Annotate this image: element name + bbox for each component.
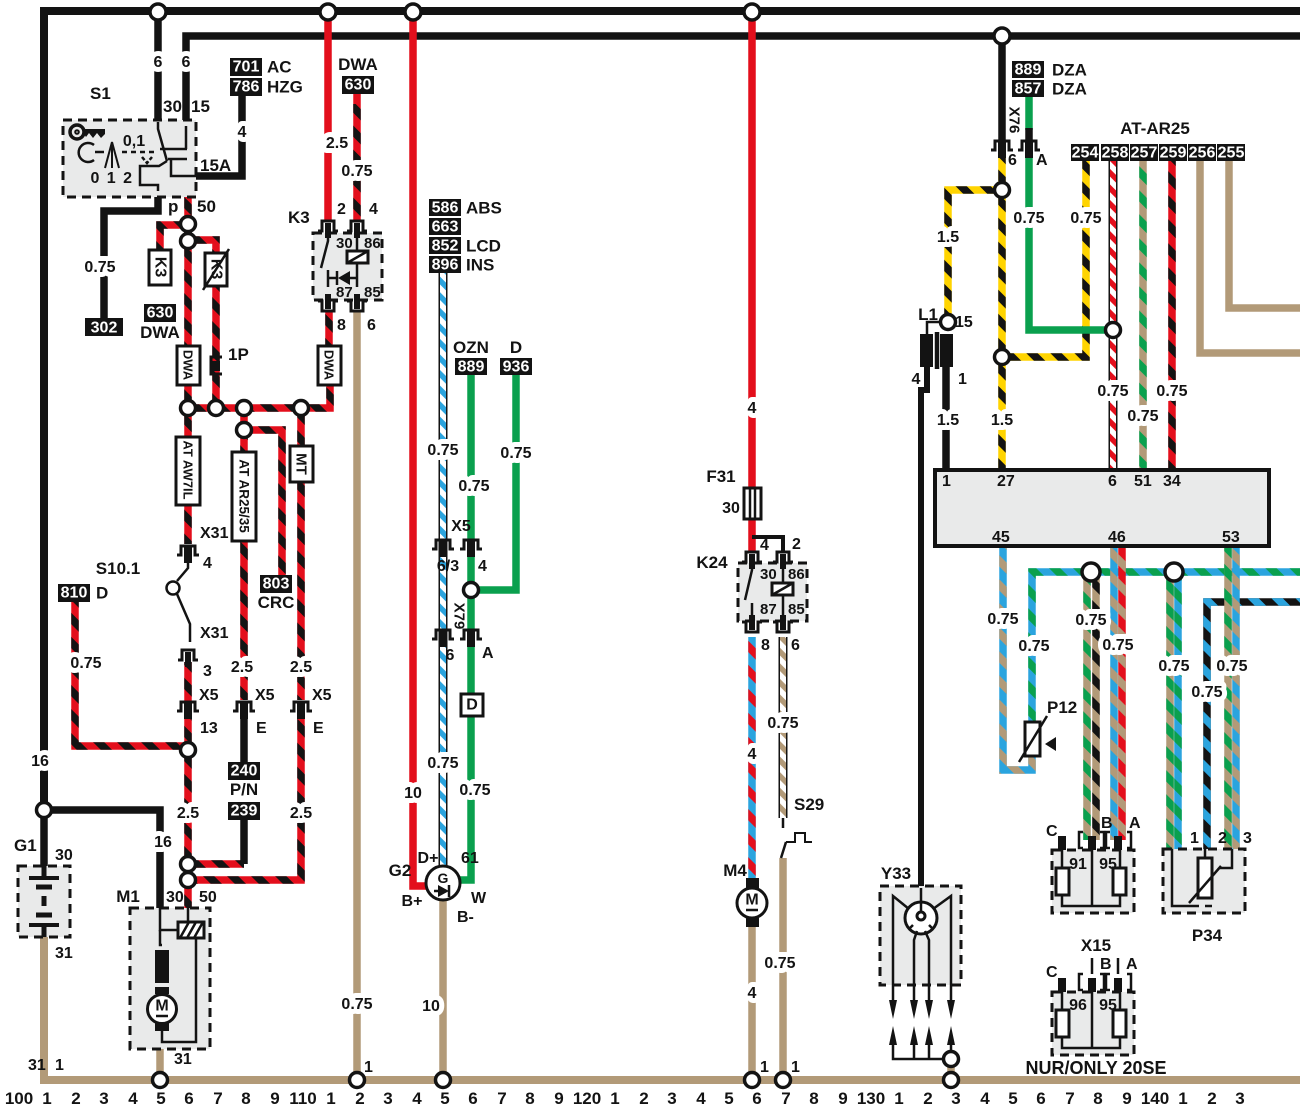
svg-text:X5: X5 [255, 687, 275, 704]
svg-text:0.75: 0.75 [1102, 637, 1133, 654]
terminal 857 DZA [1012, 80, 1087, 99]
svg-text:C: C [1046, 964, 1058, 981]
svg-text:3: 3 [1243, 830, 1252, 847]
svg-text:15: 15 [955, 314, 973, 331]
svg-text:0.75: 0.75 [70, 655, 101, 672]
switch S10.1 with connectors X31 [96, 525, 229, 680]
svg-text:15A: 15A [200, 156, 231, 175]
connector X79 [432, 603, 494, 664]
svg-text:ABS: ABS [466, 199, 502, 218]
wire D 936 green [471, 374, 516, 590]
S1 position symbols [79, 142, 154, 168]
svg-text:85: 85 [788, 601, 805, 618]
wire G2 B- brown [439, 900, 447, 1080]
svg-text:8: 8 [525, 1089, 534, 1108]
svg-text:7: 7 [497, 1089, 506, 1108]
pointer AT AR25/35 [232, 452, 256, 541]
svg-text:7: 7 [213, 1089, 222, 1108]
svg-text:257: 257 [1131, 145, 1158, 162]
svg-text:X76: X76 [1006, 107, 1023, 134]
wire junction to starter 50 node [184, 750, 192, 864]
terminal 240 P/N 239 [228, 762, 260, 820]
svg-text:889: 889 [1015, 62, 1042, 79]
junction nodes starter feed [181, 857, 196, 872]
junction nodes black/yellow [995, 183, 1010, 198]
label 701 AC [230, 58, 292, 77]
svg-text:D: D [466, 697, 478, 714]
svg-text:B-: B- [457, 909, 474, 926]
M1 series winding [155, 950, 169, 983]
svg-text:2.5: 2.5 [326, 135, 348, 152]
svg-text:8: 8 [337, 317, 346, 334]
svg-text:0.75: 0.75 [1127, 408, 1158, 425]
svg-text:27: 27 [997, 473, 1015, 490]
wire D+ blue/white [439, 273, 448, 866]
junction node rail 2 [994, 28, 1010, 44]
pointer DWA right [318, 346, 341, 385]
wire 15A to HZG [196, 95, 242, 176]
DIS module connectors C B A [1046, 815, 1141, 850]
S1 switch contacts [140, 122, 197, 191]
svg-text:0.75: 0.75 [1158, 658, 1189, 675]
svg-text:1: 1 [958, 371, 967, 388]
wire ECU53 pair left [1224, 546, 1232, 849]
pointer K3 crossed [203, 249, 229, 290]
svg-text:4: 4 [912, 371, 921, 388]
svg-text:3: 3 [203, 663, 212, 680]
svg-text:2: 2 [639, 1089, 648, 1108]
svg-text:6: 6 [1008, 152, 1017, 169]
svg-text:4: 4 [128, 1089, 138, 1108]
wire branch to L1 15 [948, 190, 1002, 322]
svg-text:86: 86 [364, 235, 381, 252]
terminal OZN 889 [453, 338, 489, 376]
svg-text:8: 8 [241, 1089, 250, 1108]
svg-text:0.75: 0.75 [1013, 210, 1044, 227]
svg-text:HZG: HZG [267, 78, 303, 97]
svg-text:30: 30 [166, 889, 184, 906]
svg-text:5: 5 [156, 1089, 165, 1108]
svg-text:2.5: 2.5 [290, 659, 312, 676]
svg-text:255: 255 [1218, 145, 1245, 162]
svg-text:9: 9 [838, 1089, 847, 1108]
wire 255 brown [1229, 158, 1300, 308]
svg-text:239: 239 [231, 803, 258, 820]
svg-text:2: 2 [1207, 1089, 1216, 1108]
wire K24-6 to S29 white/brown [779, 637, 788, 818]
svg-text:30: 30 [55, 847, 73, 864]
wire S1 p to 302 [104, 186, 158, 318]
K3 pin 2 [318, 221, 338, 238]
svg-text:2: 2 [1218, 830, 1227, 847]
pointer AT AW7IL [176, 437, 200, 505]
svg-text:15: 15 [191, 97, 210, 116]
svg-text:30: 30 [722, 500, 740, 517]
svg-text:1: 1 [364, 1059, 373, 1076]
wire DWA 630 to K3-4 [353, 92, 361, 220]
Y33 spark gaps [889, 985, 955, 1059]
svg-text:G2: G2 [389, 861, 412, 880]
svg-text:1: 1 [1178, 1089, 1187, 1108]
svg-text:16: 16 [31, 753, 49, 770]
K3 pin 6 [347, 294, 367, 311]
svg-text:1: 1 [1190, 830, 1199, 847]
svg-text:0.75: 0.75 [458, 478, 489, 495]
svg-text:256: 256 [1189, 145, 1216, 162]
terminal 257 [1130, 144, 1158, 162]
svg-text:8: 8 [761, 637, 770, 654]
connector X15 [1046, 936, 1138, 992]
svg-text:6: 6 [1036, 1089, 1045, 1108]
junction node battery [37, 803, 52, 818]
svg-text:2: 2 [355, 1089, 364, 1108]
svg-text:258: 258 [1102, 145, 1129, 162]
label DWA 630 top [338, 55, 378, 94]
sensor P34 [1163, 830, 1252, 945]
pointer K3 [149, 250, 171, 285]
svg-text:50: 50 [197, 197, 216, 216]
M1 motor [148, 995, 177, 1024]
svg-text:31: 31 [55, 945, 73, 962]
svg-text:X5: X5 [199, 687, 219, 704]
K3 pin 4 [347, 221, 367, 238]
svg-text:W: W [471, 890, 487, 907]
svg-text:0.75: 0.75 [767, 715, 798, 732]
M1 solenoid [178, 922, 204, 938]
svg-text:G1: G1 [14, 836, 37, 855]
wire node to M1 term 50 [184, 880, 192, 908]
svg-text:DWA: DWA [181, 350, 196, 381]
svg-text:30: 30 [760, 566, 777, 583]
svg-text:8: 8 [809, 1089, 818, 1108]
wire S29 ground [779, 858, 787, 1080]
ECU control unit [935, 470, 1269, 546]
wire M4 ground [748, 926, 756, 1080]
svg-text:100: 100 [5, 1089, 33, 1108]
svg-text:0.75: 0.75 [1097, 383, 1128, 400]
wire K3 coil feed 2.5 red [324, 11, 332, 220]
svg-text:3: 3 [383, 1089, 392, 1108]
junction node L1 15 [941, 315, 956, 330]
sensor P12 [1019, 698, 1077, 762]
svg-text:1: 1 [42, 1089, 51, 1108]
wire green to G2 terminal 61 [458, 590, 471, 880]
svg-text:87: 87 [336, 284, 353, 301]
svg-text:1: 1 [791, 1059, 800, 1076]
svg-text:2: 2 [792, 536, 801, 553]
svg-text:OZN: OZN [453, 338, 489, 357]
wire pair DIS B right [1092, 572, 1100, 840]
svg-text:6: 6 [1108, 473, 1117, 490]
wire battery feed to M1 term 30 [44, 810, 160, 913]
svg-text:Y33: Y33 [881, 864, 911, 883]
svg-text:2: 2 [923, 1089, 932, 1108]
terminal 259 [1159, 144, 1187, 162]
svg-text:30: 30 [336, 235, 353, 252]
wire P34-2 black/blue [1207, 602, 1300, 849]
svg-text:4: 4 [760, 537, 769, 554]
battery G1 [14, 836, 73, 962]
svg-text:6: 6 [367, 317, 376, 334]
svg-text:34: 34 [1163, 473, 1181, 490]
svg-text:3: 3 [667, 1089, 676, 1108]
svg-text:B: B [1101, 815, 1113, 832]
motor M4 [723, 861, 767, 927]
svg-text:46: 46 [1108, 529, 1126, 546]
terminals 586 ABS 663 852 LCD 896 INS [429, 199, 502, 275]
svg-text:X5: X5 [312, 687, 332, 704]
svg-text:0.75: 0.75 [84, 259, 115, 276]
wire 239 black drop [240, 820, 248, 864]
svg-text:9: 9 [1122, 1089, 1131, 1108]
wire ECU45 blue/brown to P12 [1003, 546, 1032, 770]
junction nodes top rail [150, 4, 166, 20]
svg-text:X5: X5 [451, 518, 471, 535]
wire L1-4 to Y33 [921, 367, 927, 888]
junction nodes 50 wire [181, 217, 196, 232]
svg-text:1.5: 1.5 [937, 229, 959, 246]
wire G1 31 to ground bus [40, 939, 48, 1080]
svg-text:G: G [438, 870, 449, 886]
wire ECU53 pair right [1232, 546, 1240, 849]
svg-text:1: 1 [55, 1057, 64, 1074]
pointer DWA left [177, 346, 200, 385]
svg-text:16: 16 [154, 834, 172, 851]
svg-text:CRC: CRC [258, 593, 295, 612]
pointer MT [290, 446, 313, 482]
wire 258 red/white [1109, 158, 1118, 470]
svg-text:4: 4 [238, 124, 247, 141]
svg-text:A: A [1036, 152, 1048, 169]
terminal 256 [1188, 144, 1216, 162]
svg-text:6: 6 [468, 1089, 477, 1108]
svg-text:X15: X15 [1081, 936, 1111, 955]
svg-text:852: 852 [432, 238, 459, 255]
svg-text:7: 7 [1065, 1089, 1074, 1108]
svg-text:6: 6 [154, 54, 163, 71]
junction node Y33 rail [944, 1052, 959, 1067]
wire G1 terminal 30 [40, 810, 48, 866]
svg-text:0.75: 0.75 [427, 755, 458, 772]
svg-text:0.75: 0.75 [764, 955, 795, 972]
wire 803 CRC branch [244, 430, 282, 575]
svg-text:86: 86 [788, 566, 805, 583]
svg-text:259: 259 [1160, 145, 1187, 162]
label 786 HZG [230, 78, 303, 97]
svg-text:10: 10 [422, 998, 440, 1015]
svg-text:6: 6 [184, 1089, 193, 1108]
svg-text:3: 3 [99, 1089, 108, 1108]
connector X5 mid [432, 518, 487, 575]
terminal 254 [1071, 144, 1099, 162]
wire bus 15 (second rail) [186, 36, 1300, 122]
svg-text:X31: X31 [200, 625, 229, 642]
svg-text:130: 130 [857, 1089, 885, 1108]
svg-text:3: 3 [951, 1089, 960, 1108]
svg-text:6: 6 [182, 54, 191, 71]
svg-text:630: 630 [147, 305, 174, 322]
terminal 302 [85, 318, 123, 337]
svg-text:4: 4 [980, 1089, 990, 1108]
pointer D box [461, 694, 483, 716]
wire MT E link [188, 716, 301, 880]
distributor Y33 [880, 864, 961, 1059]
svg-text:S10.1: S10.1 [96, 559, 140, 578]
svg-text:4: 4 [203, 555, 212, 572]
svg-text:4: 4 [696, 1089, 706, 1108]
wire S1 terminal 30 drop [154, 11, 162, 122]
svg-text:51: 51 [1134, 473, 1152, 490]
wire K3-85 brown to ground bus [353, 312, 361, 1080]
svg-text:A: A [482, 645, 494, 662]
svg-text:85: 85 [364, 284, 381, 301]
svg-text:8: 8 [1093, 1089, 1102, 1108]
svg-text:896: 896 [432, 257, 459, 274]
svg-text:DZA: DZA [1052, 80, 1087, 99]
svg-text:1: 1 [610, 1089, 619, 1108]
svg-text:87: 87 [760, 601, 777, 618]
svg-text:M: M [745, 892, 758, 909]
svg-text:1P: 1P [228, 345, 249, 364]
svg-text:6: 6 [446, 647, 455, 664]
svg-text:2.5: 2.5 [177, 805, 199, 822]
svg-text:10: 10 [404, 785, 422, 802]
svg-text:INS: INS [466, 256, 494, 275]
svg-text:B+: B+ [402, 893, 423, 910]
svg-text:0.75: 0.75 [500, 445, 531, 462]
svg-text:31: 31 [174, 1051, 192, 1068]
svg-text:9: 9 [554, 1089, 563, 1108]
fuse F31 [706, 467, 761, 519]
svg-text:701: 701 [233, 59, 260, 76]
ignition switch S1 [63, 84, 231, 216]
svg-text:0.75: 0.75 [341, 163, 372, 180]
svg-text:X31: X31 [200, 525, 229, 542]
svg-text:DWA: DWA [338, 55, 378, 74]
bottom scale [5, 1089, 1245, 1108]
svg-text:6/3: 6/3 [437, 558, 459, 575]
wire alternator B+ red 10 [413, 11, 428, 886]
svg-text:E: E [313, 720, 324, 737]
junction row nodes [181, 401, 196, 416]
K24 pin 4 [742, 552, 762, 569]
wire X5-E black to 240 [240, 716, 248, 762]
svg-text:F31: F31 [706, 467, 735, 486]
svg-text:3: 3 [1235, 1089, 1244, 1108]
wire ground bus 31 [44, 936, 1300, 1080]
wire X31-3 to X5-13 to junction [184, 662, 192, 750]
svg-text:MT: MT [293, 453, 310, 475]
svg-text:AT-AR25: AT-AR25 [1120, 119, 1190, 138]
relay K3 [288, 201, 382, 334]
svg-text:S29: S29 [794, 795, 824, 814]
svg-text:302: 302 [91, 320, 118, 337]
svg-text:240: 240 [231, 763, 258, 780]
svg-text:6: 6 [752, 1089, 761, 1108]
wire F31 to K24-4 [748, 517, 756, 552]
K24 internals [745, 563, 783, 617]
svg-text:1: 1 [894, 1089, 903, 1108]
K24 pin 8 [742, 615, 762, 632]
svg-text:0.75: 0.75 [1070, 210, 1101, 227]
K3 internals [321, 233, 357, 287]
svg-text:586: 586 [432, 200, 459, 217]
switch S29 [781, 795, 824, 858]
svg-text:DWA: DWA [322, 350, 337, 381]
svg-text:DWA: DWA [140, 323, 180, 342]
DIS module resistors 91 95 [1052, 850, 1134, 913]
terminal 255 [1217, 144, 1245, 162]
K3 pin 8 [318, 294, 338, 311]
svg-text:50: 50 [199, 889, 217, 906]
wire K24-8 to M4 blue/red [748, 637, 756, 878]
svg-text:1: 1 [942, 473, 951, 490]
wire 50 main down through DWA pointer [184, 240, 192, 410]
wire 257 brown/green [1139, 158, 1147, 470]
svg-text:NUR/ONLY 20SE: NUR/ONLY 20SE [1025, 1058, 1166, 1078]
svg-text:4: 4 [412, 1089, 422, 1108]
svg-text:803: 803 [263, 576, 290, 593]
wire ECU46 pair left blue/brown [1110, 546, 1118, 840]
svg-text:0,1: 0,1 [123, 133, 145, 150]
svg-text:140: 140 [1141, 1089, 1169, 1108]
svg-text:B: B [1100, 956, 1112, 973]
DIS 20SE resistors 96 95 [1025, 992, 1166, 1078]
svg-text:254: 254 [1072, 145, 1099, 162]
junction nodes sensor rail [1082, 563, 1100, 581]
svg-text:4: 4 [748, 746, 757, 763]
svg-text:0.75: 0.75 [459, 782, 490, 799]
svg-text:S1: S1 [90, 84, 111, 103]
terminal 889 DZA [1012, 61, 1087, 80]
svg-text:P34: P34 [1192, 926, 1223, 945]
svg-text:X79: X79 [451, 603, 468, 630]
svg-text:0.75: 0.75 [1191, 684, 1222, 701]
wire P12 blue/green rail [1032, 572, 1300, 722]
wire Y33 ground stub [947, 1056, 955, 1080]
wire bus 30 (top feed rail) [44, 11, 1300, 812]
starter M1 [116, 887, 217, 1068]
relay K24 [696, 536, 807, 654]
junction node 803 branch [237, 423, 252, 438]
terminal D 936 [500, 338, 532, 376]
svg-text:663: 663 [432, 219, 459, 236]
junction node green 936 [464, 583, 479, 598]
svg-text:0.75: 0.75 [427, 442, 458, 459]
svg-text:786: 786 [233, 79, 260, 96]
svg-text:1: 1 [326, 1089, 335, 1108]
wire junction row horizontal [188, 385, 330, 408]
svg-text:DZA: DZA [1052, 61, 1087, 80]
ignition coil L1 [912, 305, 973, 388]
svg-text:D: D [510, 338, 522, 357]
svg-text:D+: D+ [418, 850, 439, 867]
svg-text:13: 13 [200, 720, 218, 737]
svg-text:2: 2 [337, 201, 346, 218]
svg-text:630: 630 [345, 77, 372, 94]
connector X76 [991, 107, 1048, 169]
terminal 258 [1101, 144, 1129, 162]
svg-text:120: 120 [573, 1089, 601, 1108]
svg-text:K3: K3 [152, 257, 169, 278]
junction node green/258 [1106, 323, 1121, 338]
svg-text:4: 4 [369, 201, 378, 218]
wire 810 D circuit [75, 601, 184, 746]
svg-text:96: 96 [1069, 997, 1087, 1014]
wire K3-87 DWA drop [325, 312, 333, 385]
svg-text:5: 5 [724, 1089, 733, 1108]
svg-text:889: 889 [458, 359, 485, 376]
